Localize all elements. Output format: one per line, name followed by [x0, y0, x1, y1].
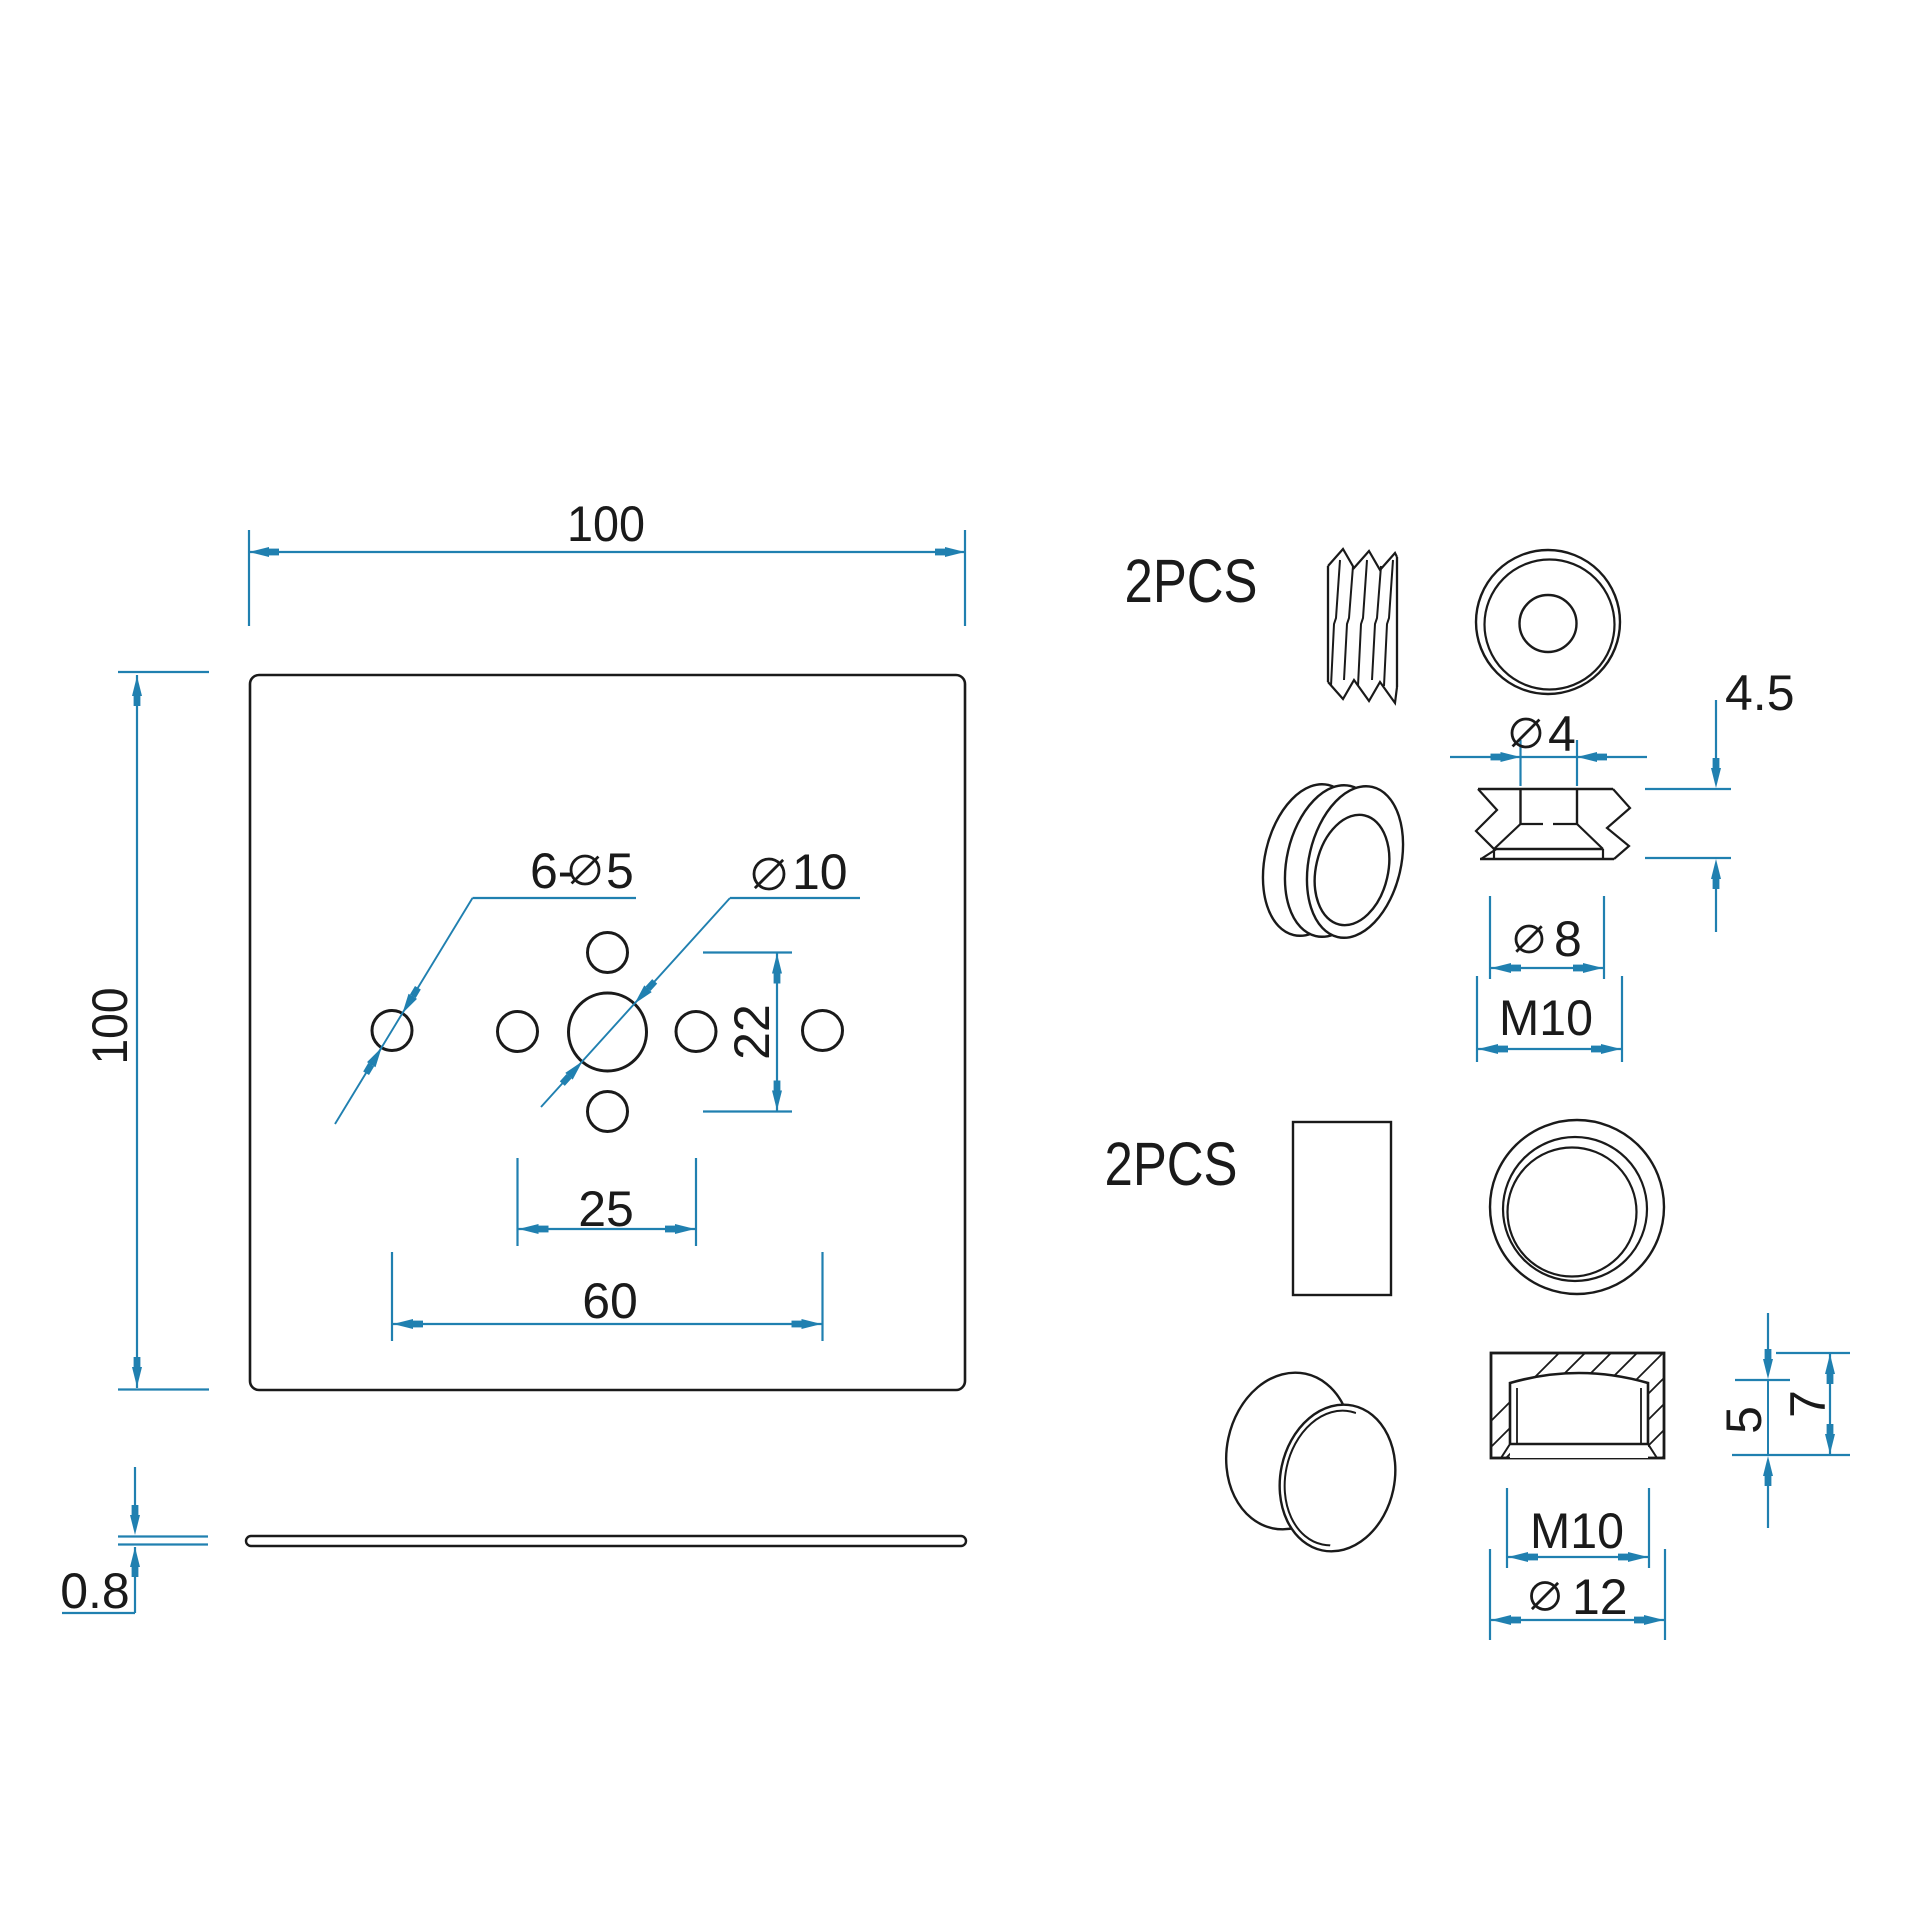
svg-text:2PCS: 2PCS	[1105, 1130, 1238, 1198]
thread insert section view	[1476, 789, 1630, 859]
inner left hole Ø5	[498, 1012, 538, 1052]
dimension 100 (top width)	[249, 496, 965, 626]
svg-text:6-: 6-	[530, 843, 574, 899]
svg-text:4: 4	[1548, 706, 1576, 762]
label 2PCS (top group)	[1125, 547, 1258, 615]
outer right hole Ø5	[803, 1011, 843, 1051]
cap 3D view	[1212, 1361, 1409, 1562]
outer left hole Ø5	[372, 1011, 412, 1051]
thread insert front view	[1476, 550, 1620, 694]
dimension 5 (cavity depth)	[1716, 1313, 1850, 1528]
svg-text:60: 60	[582, 1273, 638, 1329]
label 2PCS (bottom group)	[1105, 1130, 1238, 1198]
spacer side view (rectangle)	[1293, 1122, 1391, 1295]
svg-text:5: 5	[606, 843, 634, 899]
top hole Ø5	[588, 933, 628, 973]
dimension 25 (inner hole spacing)	[518, 1158, 697, 1246]
dimension 60 (outer hole spacing)	[392, 1252, 823, 1341]
dimension M10 (thread, bottom group)	[1507, 1488, 1649, 1568]
svg-text:2PCS: 2PCS	[1125, 547, 1258, 615]
svg-text:22: 22	[724, 1004, 780, 1060]
svg-text:5: 5	[1716, 1406, 1772, 1434]
leader Ø10 (center hole)	[541, 844, 860, 1107]
plate side view (0.8 thick)	[246, 1536, 966, 1546]
svg-text:0.8: 0.8	[60, 1563, 130, 1619]
svg-text:12: 12	[1572, 1569, 1628, 1625]
dimension 100 (left height)	[82, 672, 209, 1390]
svg-text:8: 8	[1554, 911, 1582, 967]
inner right hole Ø5	[676, 1012, 716, 1052]
svg-text:25: 25	[578, 1181, 634, 1237]
leader 6-Ø5 (six 5mm holes)	[335, 843, 636, 1124]
spacer front view (ring)	[1490, 1120, 1664, 1294]
svg-text:M10: M10	[1530, 1503, 1624, 1559]
thread insert 3D view	[1249, 775, 1417, 948]
cap section view	[1442, 1340, 1910, 1470]
svg-text:M10: M10	[1499, 990, 1593, 1046]
svg-text:10: 10	[792, 844, 848, 900]
svg-text:100: 100	[82, 988, 138, 1065]
plate outline (100x100 square)	[250, 675, 965, 1390]
center hole Ø10	[569, 993, 647, 1071]
dimension Ø8 (flange)	[1490, 896, 1604, 979]
svg-text:7: 7	[1780, 1390, 1836, 1418]
dimension 4.5 (section height)	[1645, 665, 1795, 932]
thread insert side view (thread profile)	[1328, 549, 1397, 703]
dimension M10 (thread, top group)	[1477, 976, 1622, 1062]
svg-text:100: 100	[567, 496, 645, 552]
bottom hole Ø5	[588, 1092, 628, 1132]
dimension Ø4 (bore)	[1450, 706, 1647, 786]
svg-text:4.5: 4.5	[1725, 665, 1795, 721]
dimension 7 (cap height)	[1776, 1353, 1850, 1455]
dimension 0.8 (plate thickness)	[60, 1467, 208, 1619]
dimension 22 (vertical hole spacing)	[703, 953, 792, 1112]
dimension Ø12 (cap diameter)	[1490, 1549, 1665, 1640]
